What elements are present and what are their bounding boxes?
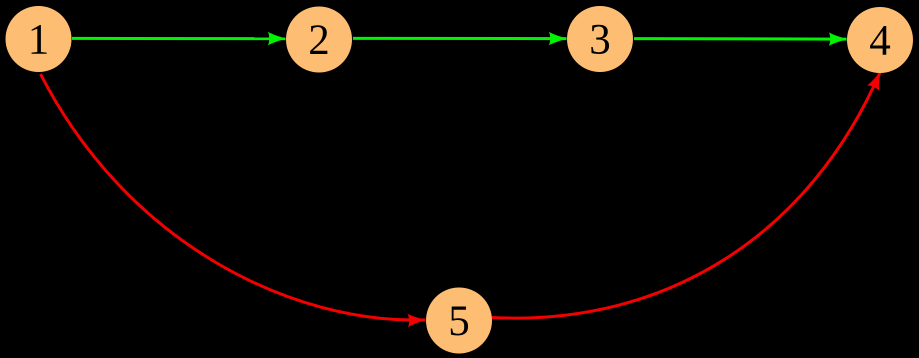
edge 2->3 (green arrow wire) bbox=[353, 37, 567, 40]
node 3 bbox=[567, 6, 633, 72]
edge 1->5 (red curved arrow wire) bbox=[41, 74, 426, 320]
edge 1->2 (green arrow wire) bbox=[72, 37, 286, 40]
node 4 bbox=[847, 7, 913, 73]
svg-text:1: 1 bbox=[28, 17, 50, 64]
edge 3->4 (green arrow wire) bbox=[634, 37, 847, 41]
svg-text:3: 3 bbox=[589, 17, 611, 64]
node 1 bbox=[6, 6, 72, 72]
node 5 bbox=[426, 288, 492, 354]
svg-text:5: 5 bbox=[448, 298, 470, 345]
svg-text:4: 4 bbox=[869, 18, 891, 65]
node 2 bbox=[286, 7, 352, 73]
edge 5->4 (red curved arrow wire) bbox=[492, 72, 880, 318]
svg-text:2: 2 bbox=[308, 17, 330, 64]
